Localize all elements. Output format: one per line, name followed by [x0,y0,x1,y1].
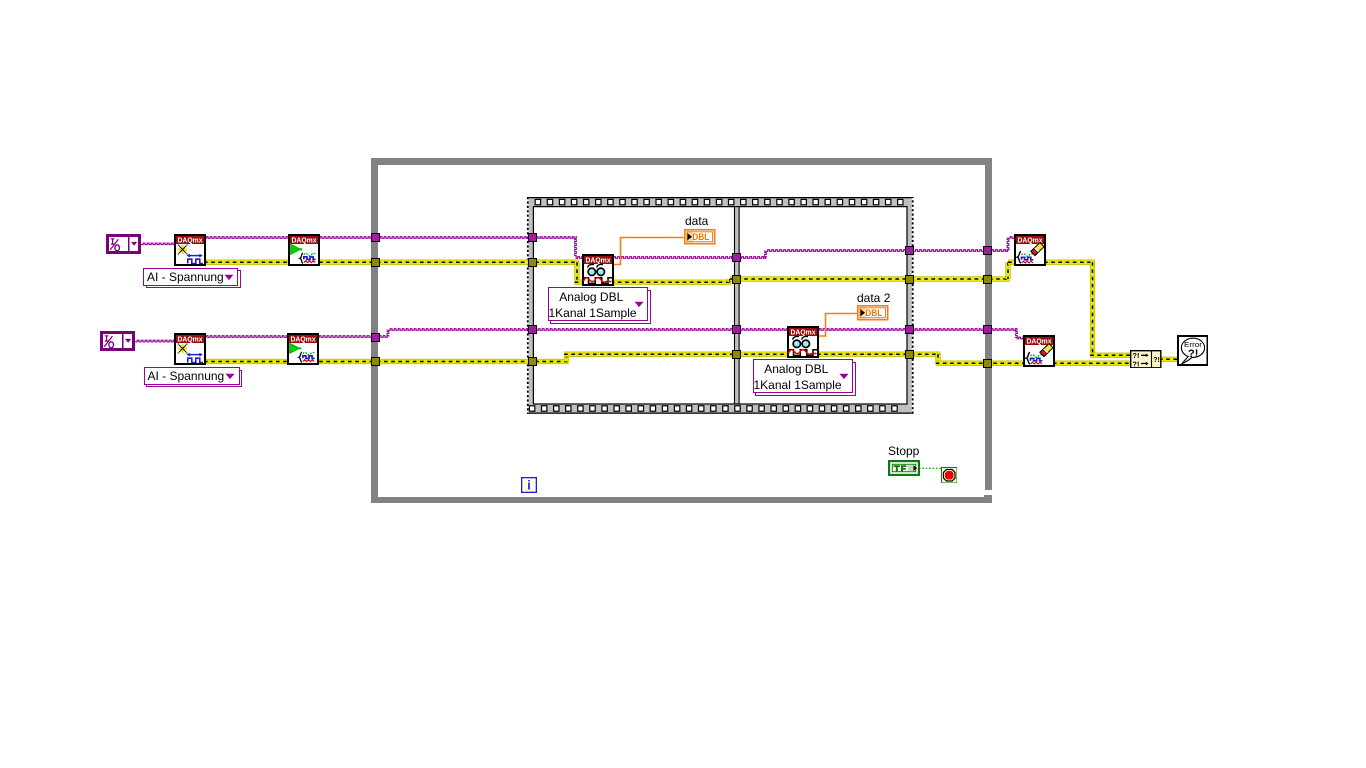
svg-text:DBL: DBL [866,308,884,318]
svg-text:?!: ?! [1132,359,1139,368]
svg-text:DAQmx: DAQmx [586,256,612,265]
svg-text:DAQmx: DAQmx [178,236,204,245]
svg-text:?!: ?! [1153,357,1160,364]
svg-text:DAQmx: DAQmx [791,328,817,337]
svg-text:i: i [527,479,530,493]
svg-text:?!: ?! [1188,348,1198,360]
svg-text:DBL: DBL [692,232,710,242]
svg-text:DAQmx: DAQmx [178,335,204,344]
svg-text:DAQmx: DAQmx [292,236,318,245]
svg-text:DAQmx: DAQmx [291,335,317,344]
